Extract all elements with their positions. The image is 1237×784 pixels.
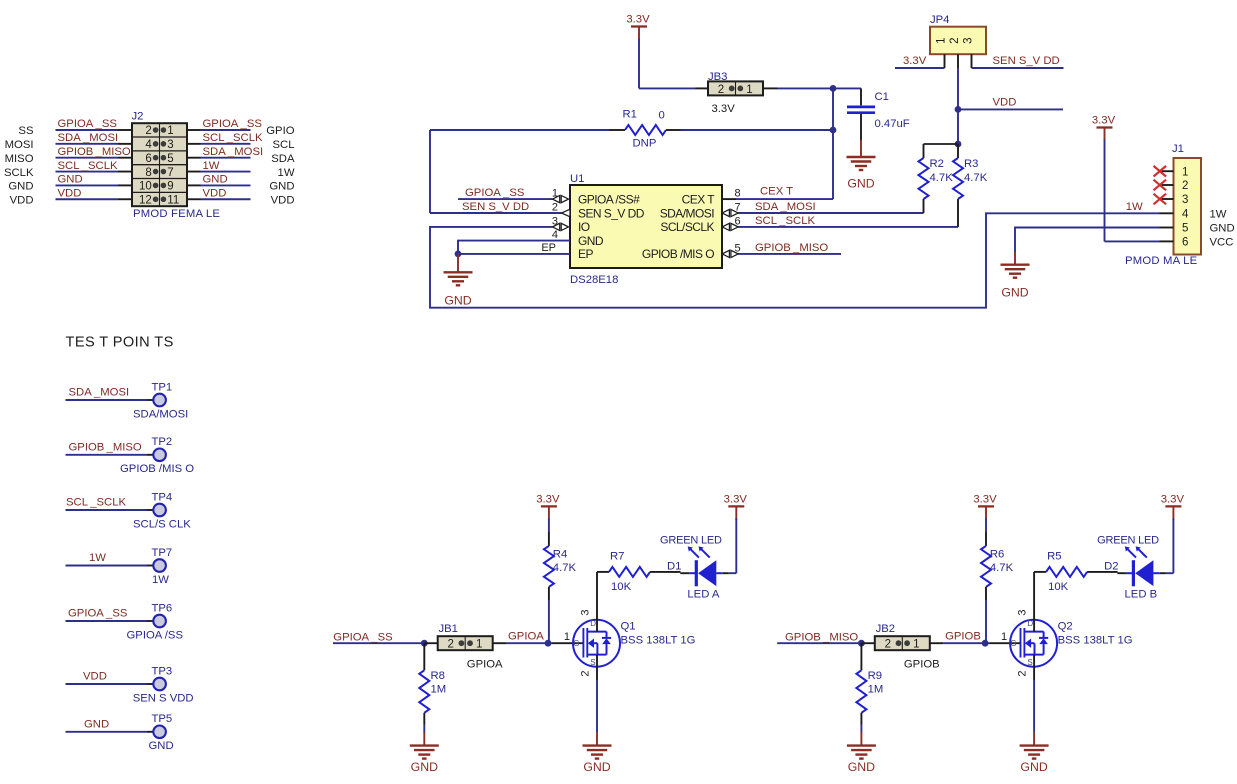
wire JB1 to gate node xyxy=(506,642,548,644)
net label GPIOB_MISO (TP2) xyxy=(69,442,142,454)
wire Q2 drain up to R5 xyxy=(1033,667,1035,732)
net label SCL_SCLK (J2 right) xyxy=(203,132,263,144)
svg-text:1: 1 xyxy=(564,631,570,643)
pin glyph U1 pin 1 xyxy=(553,196,569,203)
svg-text:TP2: TP2 xyxy=(152,436,173,448)
wire GPIOB_MISO: U1 pin 5 xyxy=(738,253,841,255)
net label SDA_MOSI (U1 pin7) xyxy=(755,201,816,213)
svg-text:R8: R8 xyxy=(431,670,445,682)
designator R1 xyxy=(623,109,637,121)
svg-text:SDA/MOSI: SDA/MOSI xyxy=(660,206,714,220)
svg-text:GND: GND xyxy=(848,760,875,774)
port 1W (J1) xyxy=(1210,209,1227,221)
port SS (J2 left) xyxy=(18,125,34,137)
ground (Q1 source) xyxy=(583,732,612,774)
svg-text:GND: GND xyxy=(203,174,228,186)
svg-text:5: 5 xyxy=(1182,223,1188,235)
svg-text:1W: 1W xyxy=(89,552,106,564)
net label SDA_MOSI (J2 left) xyxy=(58,132,119,144)
svg-text:GPIOB /MIS O: GPIOB /MIS O xyxy=(642,247,714,261)
svg-text:10K: 10K xyxy=(1048,581,1069,593)
designator TP6 xyxy=(152,602,173,614)
svg-text:VDD: VDD xyxy=(993,97,1017,109)
designator JB1 xyxy=(439,623,458,635)
svg-text:GND: GND xyxy=(1001,286,1028,300)
jumper JB2 xyxy=(861,636,943,650)
value 4.7K (R2) xyxy=(930,172,954,184)
wire J2 pin 11 right xyxy=(187,198,251,200)
net label SCL_SCLK (TP4) xyxy=(66,497,126,509)
net label 1W (J2 right) xyxy=(203,160,220,172)
wire J2 pin 7 right xyxy=(187,171,251,173)
net label VDD (TP3) xyxy=(83,671,107,683)
svg-text:2: 2 xyxy=(1182,180,1188,192)
svg-text:SDA _MOSI: SDA _MOSI xyxy=(69,387,130,399)
wire 3.3V to JP4 pin 1 xyxy=(895,67,945,69)
svg-text:GREEN LED: GREEN LED xyxy=(660,535,722,547)
svg-text:2: 2 xyxy=(949,37,961,43)
svg-text:3.3V: 3.3V xyxy=(712,103,736,115)
designator J1 xyxy=(1172,143,1184,155)
wire J2 pin 1 right xyxy=(187,129,251,131)
designator D1 xyxy=(667,561,681,573)
wire 1W net: U1 pin 3 loop to J1 pin 4 xyxy=(430,213,1160,307)
resistor R7 10K xyxy=(597,567,681,620)
svg-text:3.3V: 3.3V xyxy=(1092,115,1116,127)
svg-text:5: 5 xyxy=(167,153,173,165)
power port 3.3V (D2) xyxy=(1161,493,1185,520)
wire U1 EP pin xyxy=(458,253,570,255)
wire SENS_VDD from JP4 pin 3 xyxy=(972,67,1064,69)
net label GPIOB_MISO xyxy=(785,631,858,643)
pin number 5 (U1) xyxy=(735,242,741,254)
designator TP1 xyxy=(152,381,173,393)
value 10K (R7) xyxy=(611,581,632,593)
port MOSI (J2 left) xyxy=(5,139,34,151)
test point TP2 xyxy=(66,449,166,462)
svg-text:S: S xyxy=(1027,658,1032,667)
svg-text:Q2: Q2 xyxy=(1058,621,1073,633)
svg-text:D2: D2 xyxy=(1104,561,1118,573)
wire D1 to 3.3V xyxy=(735,519,737,573)
svg-text:DS28E18: DS28E18 xyxy=(570,274,618,286)
svg-text:2: 2 xyxy=(718,84,724,96)
pin glyph U1 pin 5 xyxy=(722,250,738,257)
svg-text:GPIOA: GPIOA xyxy=(467,659,503,671)
svg-text:Q1: Q1 xyxy=(621,621,636,633)
pin names U1 left side xyxy=(578,192,645,261)
svg-text:U1: U1 xyxy=(570,173,584,185)
pin number 3 (Q2 drain) xyxy=(1016,609,1028,615)
svg-text:GPIOB _MISO: GPIOB _MISO xyxy=(69,442,142,454)
svg-text:PMOD MA LE: PMOD MA LE xyxy=(1125,255,1198,267)
port MISO (J2 left) xyxy=(5,153,34,165)
wire D2 to 3.3V xyxy=(1172,519,1174,573)
svg-text:R7: R7 xyxy=(610,551,624,563)
svg-text:SDA/MOSI: SDA/MOSI xyxy=(133,408,188,420)
net label VDD (J2 right) xyxy=(203,187,227,199)
svg-text:GPIOA: GPIOA xyxy=(508,631,544,643)
LED D2 green xyxy=(1117,546,1173,586)
wire J2 pin 8 left xyxy=(56,171,133,173)
svg-text:GPIOB /MIS O: GPIOB /MIS O xyxy=(120,463,194,475)
svg-text:GPIOA /SS: GPIOA /SS xyxy=(127,629,184,641)
svg-text:2: 2 xyxy=(885,639,891,651)
wire J2 pin 3 right xyxy=(187,143,251,145)
svg-text:SDA _MOSI: SDA _MOSI xyxy=(755,201,816,213)
svg-text:VDD: VDD xyxy=(58,187,82,199)
connector J1 PMOD male xyxy=(1160,158,1202,255)
port GND (J1) xyxy=(1210,223,1235,235)
svg-text:GREEN LED: GREEN LED xyxy=(1097,535,1159,547)
test point TP6 xyxy=(66,615,166,628)
svg-text:R4: R4 xyxy=(553,549,567,561)
junction gate node Q1 xyxy=(545,640,552,647)
designator R8 xyxy=(431,670,445,682)
svg-text:6: 6 xyxy=(1182,237,1188,249)
svg-text:JP4: JP4 xyxy=(930,14,949,26)
svg-text:TP1: TP1 xyxy=(152,381,173,393)
svg-text:GPIOB _MISO: GPIOB _MISO xyxy=(755,242,828,254)
label GND (TP5) xyxy=(149,740,174,752)
ground (C1) xyxy=(847,140,876,191)
svg-text:IO: IO xyxy=(578,220,590,234)
power port 3.3V (D1) xyxy=(724,493,748,520)
test point TP3 xyxy=(66,678,166,691)
label GPIOB (below JB2) xyxy=(904,659,940,671)
wire node CEXT vertical xyxy=(832,88,834,199)
port GND (J2 left) xyxy=(8,181,33,193)
svg-text:3.3V: 3.3V xyxy=(626,14,650,26)
designator TP5 xyxy=(152,713,173,725)
pin glyph U1 pin 2 xyxy=(562,209,571,217)
wire U1 pin 4 GND xyxy=(458,241,570,254)
net label GPIOA_SS xyxy=(333,631,393,643)
svg-text:MISO: MISO xyxy=(5,153,34,165)
svg-text:SCL _SCLK: SCL _SCLK xyxy=(66,497,126,509)
svg-text:10K: 10K xyxy=(611,581,632,593)
label LED B xyxy=(1125,589,1158,601)
pin number 2 (Q2 source) xyxy=(1016,670,1028,676)
svg-text:GPIOA _SS: GPIOA _SS xyxy=(68,608,128,620)
svg-text:SCL: SCL xyxy=(273,139,295,151)
svg-text:1W: 1W xyxy=(278,167,295,179)
port GND (J2 right) xyxy=(269,181,294,193)
svg-text:TP5: TP5 xyxy=(152,713,173,725)
svg-text:GND: GND xyxy=(84,719,109,731)
designator JB2 xyxy=(876,623,895,635)
label SDA/MOSI (TP1) xyxy=(133,408,188,420)
svg-text:0: 0 xyxy=(659,110,665,122)
svg-text:1: 1 xyxy=(913,639,919,651)
wire J1 pin 5 to ground xyxy=(1015,228,1160,253)
svg-text:10: 10 xyxy=(139,181,152,193)
svg-text:1: 1 xyxy=(746,84,752,96)
svg-text:GND: GND xyxy=(8,181,33,193)
pin number 2 (Q1 source) xyxy=(579,670,591,676)
svg-text:R9: R9 xyxy=(868,670,882,682)
svg-text:2: 2 xyxy=(447,639,453,651)
ground (Q2 source) xyxy=(1020,732,1049,774)
svg-text:1M: 1M xyxy=(868,684,884,696)
designator TP7 xyxy=(152,547,173,559)
svg-text:GPIOA _SS: GPIOA _SS xyxy=(58,118,118,130)
designator C1 xyxy=(875,91,889,103)
pin number 2 (U1) xyxy=(552,201,558,213)
pin number 4 (U1) xyxy=(552,229,558,241)
wire J2 pin 5 right xyxy=(187,157,251,159)
pin number 1 (Q1 gate) xyxy=(564,631,570,643)
svg-text:LED B: LED B xyxy=(1125,589,1158,601)
svg-text:1: 1 xyxy=(476,639,482,651)
svg-text:1: 1 xyxy=(1182,166,1188,178)
title TEST POINTS xyxy=(66,335,174,351)
wire GPIOA_SS to U1 pin 1 xyxy=(458,198,553,200)
svg-text:GPIOA _SS: GPIOA _SS xyxy=(465,187,525,199)
test point TP1 xyxy=(66,394,166,407)
label PMOD MALE xyxy=(1125,255,1198,267)
svg-text:1W: 1W xyxy=(152,574,169,586)
ground (J1 pin5) xyxy=(1001,252,1030,300)
svg-text:SDA _MOSI: SDA _MOSI xyxy=(58,132,119,144)
net label 3.3V (JP4 pin1) xyxy=(903,55,927,67)
pin number 7 (U1) xyxy=(735,201,741,213)
wire J2 pin 9 right xyxy=(187,184,251,186)
net label 1W (J1 pin4) xyxy=(1126,201,1143,213)
svg-text:EP: EP xyxy=(541,242,556,254)
svg-text:3: 3 xyxy=(1016,609,1028,615)
jumper JB3 xyxy=(696,81,778,95)
svg-text:R3: R3 xyxy=(964,158,978,170)
resistor R1 xyxy=(430,125,833,135)
junction JB1 input xyxy=(421,640,428,647)
ground (U1 EP) xyxy=(444,254,473,307)
svg-text:SEN S_V DD: SEN S_V DD xyxy=(462,201,529,213)
pin glyph U1 pin 6 xyxy=(722,223,738,230)
svg-text:TES T POIN TS: TES T POIN TS xyxy=(66,335,174,351)
pin number 1 (U1) xyxy=(552,188,558,200)
resistor R5 10K xyxy=(1034,567,1118,620)
pin label EP on wire xyxy=(541,242,556,254)
svg-text:R6: R6 xyxy=(990,549,1004,561)
svg-text:1: 1 xyxy=(1001,631,1007,643)
svg-text:3: 3 xyxy=(167,139,173,151)
svg-text:11: 11 xyxy=(167,194,179,206)
svg-text:TP6: TP6 xyxy=(152,602,173,614)
svg-text:SEN S VDD: SEN S VDD xyxy=(133,692,194,704)
test point TP7 xyxy=(66,559,166,572)
connector J2 PMOD female xyxy=(132,123,187,206)
svg-text:SCL _SCLK: SCL _SCLK xyxy=(755,215,815,227)
wire GPIOA_SS input xyxy=(333,642,424,644)
designator R2 xyxy=(930,158,944,170)
net label VDD xyxy=(993,97,1017,109)
svg-text:J2: J2 xyxy=(132,111,144,123)
svg-text:GPIOB _MISO: GPIOB _MISO xyxy=(58,146,131,158)
svg-text:EP: EP xyxy=(578,247,593,261)
resistor R9 1M pull-down xyxy=(856,643,866,732)
wire JP4 pin 2 down to VDD node xyxy=(957,68,959,144)
svg-text:GND: GND xyxy=(269,181,294,193)
svg-text:G: G xyxy=(1010,639,1016,648)
svg-text:12: 12 xyxy=(139,194,152,206)
wire gate node to Q1 gate xyxy=(548,642,584,644)
pin number 3 (Q1 drain) xyxy=(579,609,591,615)
label PMOD FEMALE xyxy=(133,208,220,220)
net label GPIOA_SS (J2 left) xyxy=(58,118,118,130)
svg-text:9: 9 xyxy=(167,181,173,193)
label GPIOA /SS (TP6) xyxy=(127,629,184,641)
op-amp U1 DS28E18 body xyxy=(570,185,722,268)
net label SCL_SCLK (U1 pin6) xyxy=(755,215,815,227)
net label SCL_SCLK (J2 left) xyxy=(58,160,118,172)
test point TP5 xyxy=(66,726,166,739)
svg-text:3: 3 xyxy=(963,37,975,43)
svg-text:R1: R1 xyxy=(623,109,637,121)
svg-text:1: 1 xyxy=(167,125,173,137)
svg-text:8: 8 xyxy=(145,167,151,179)
svg-text:JB1: JB1 xyxy=(439,623,458,635)
net label GND (J2 left) xyxy=(58,174,83,186)
power port 3.3V (R4) xyxy=(536,493,560,532)
svg-text:BSS 138LT 1G: BSS 138LT 1G xyxy=(1058,635,1133,647)
part number BSS 138LT 1G (Q2) xyxy=(1058,635,1133,647)
svg-text:4.7K: 4.7K xyxy=(930,172,954,184)
power port 3.3V (top, feeds JB3) xyxy=(626,14,650,89)
designator R9 xyxy=(868,670,882,682)
net label GPIOB_MISO (J2 left) xyxy=(58,146,131,158)
wire VDD xyxy=(958,108,1063,110)
svg-text:6: 6 xyxy=(145,153,151,165)
svg-text:SDA: SDA xyxy=(271,153,295,165)
svg-text:0.47uF: 0.47uF xyxy=(875,118,910,130)
svg-text:1W: 1W xyxy=(1126,201,1143,213)
svg-text:SS: SS xyxy=(18,125,34,137)
svg-text:VDD: VDD xyxy=(203,187,227,199)
resistor R6 4.7K xyxy=(981,532,991,643)
svg-text:2: 2 xyxy=(1016,670,1028,676)
junction gate node Q2 xyxy=(982,640,989,647)
svg-text:GPIOA /SS#: GPIOA /SS# xyxy=(578,192,640,206)
resistor R8 1M pull-down xyxy=(419,643,429,732)
port SCLK (J2 left) xyxy=(4,167,34,179)
svg-text:GND: GND xyxy=(149,740,174,752)
svg-text:MOSI: MOSI xyxy=(5,139,34,151)
wire Q1 drain up to R7 xyxy=(596,667,598,732)
junction R2/R3 top xyxy=(955,141,962,148)
designator TP4 xyxy=(152,491,173,503)
resistor R2 4.7K xyxy=(919,144,959,213)
value 4.7K (R4) xyxy=(553,562,577,574)
svg-text:2: 2 xyxy=(145,125,151,137)
port VCC (J1) xyxy=(1210,237,1234,249)
value 10K (R5) xyxy=(1048,581,1069,593)
transistor Q1 BSS 138LT 1G xyxy=(573,619,620,667)
svg-text:3: 3 xyxy=(1182,194,1188,206)
junction at JB3 output xyxy=(830,85,837,92)
svg-text:GND: GND xyxy=(444,293,471,307)
svg-text:VDD: VDD xyxy=(10,194,34,206)
port SCL (J2 right) xyxy=(273,139,295,151)
capacitor C1 xyxy=(847,88,875,140)
svg-text:3.3V: 3.3V xyxy=(724,493,748,505)
label LED A xyxy=(687,589,719,601)
svg-text:D: D xyxy=(1027,619,1033,628)
net label GND (J2 right) xyxy=(203,174,228,186)
part number DS28E18 xyxy=(570,274,618,286)
net label GPIOB (gate node) xyxy=(945,631,981,643)
designator R6 xyxy=(990,549,1004,561)
svg-text:D1: D1 xyxy=(667,561,681,573)
svg-text:TP3: TP3 xyxy=(152,665,173,677)
svg-text:1W: 1W xyxy=(1210,209,1227,221)
svg-text:R2: R2 xyxy=(930,158,944,170)
svg-text:3.3V: 3.3V xyxy=(536,493,560,505)
svg-text:J1: J1 xyxy=(1172,143,1184,155)
designator R7 xyxy=(610,551,624,563)
label GPIOB /MIS O (TP2) xyxy=(120,463,194,475)
label SEN S VDD (TP3) xyxy=(133,692,194,704)
svg-text:JB2: JB2 xyxy=(876,623,895,635)
test point TP4 xyxy=(66,504,166,517)
connector JP4 xyxy=(930,27,986,68)
net label SENS_VDD (U1 pin2) xyxy=(462,201,529,213)
svg-text:4: 4 xyxy=(552,229,558,241)
designator D2 xyxy=(1104,561,1118,573)
pin number 1 (Q2 gate) xyxy=(1001,631,1007,643)
svg-text:TP7: TP7 xyxy=(152,547,173,559)
ground (R9) xyxy=(847,732,876,774)
svg-text:S: S xyxy=(590,658,595,667)
value 1M (R8) xyxy=(431,684,447,696)
svg-text:GND: GND xyxy=(847,177,874,191)
svg-text:SEN S_V DD: SEN S_V DD xyxy=(993,55,1060,67)
svg-text:4.7K: 4.7K xyxy=(553,562,577,574)
jumper JB1 xyxy=(424,636,506,650)
wire J2 pin 2 left xyxy=(56,129,133,131)
pin glyph U1 pin 7 xyxy=(722,209,738,216)
pin number 8 (U1) xyxy=(735,188,741,200)
label GREEN LED (D2) xyxy=(1097,535,1159,547)
svg-text:4: 4 xyxy=(145,139,152,151)
svg-text:SEN S_V DD: SEN S_V DD xyxy=(578,206,645,220)
svg-text:1W: 1W xyxy=(203,160,220,172)
svg-text:R5: R5 xyxy=(1047,551,1061,563)
net label GPIOA (gate node) xyxy=(508,631,544,643)
net label SDA_MOSI (TP1) xyxy=(69,387,130,399)
net label GPIOB_MISO (U1 pin5) xyxy=(755,242,828,254)
net label VDD (J2 left) xyxy=(58,187,82,199)
wire SENS_VDD to U1 pin 2 xyxy=(430,130,562,213)
svg-text:2: 2 xyxy=(579,670,591,676)
label GREEN LED (D1) xyxy=(660,535,722,547)
port VDD (J2 left) xyxy=(10,194,34,206)
label GPIOA (below JB1) xyxy=(467,659,503,671)
part number BSS 138LT 1G (Q1) xyxy=(621,635,696,647)
svg-text:4.7K: 4.7K xyxy=(990,562,1014,574)
svg-text:BSS 138LT 1G: BSS 138LT 1G xyxy=(621,635,696,647)
wire CEXT: U1 pin 8 xyxy=(722,198,833,200)
wire JB3 to node CEXT xyxy=(778,87,862,89)
no-connect X J1 pin 1 xyxy=(1154,166,1167,177)
svg-text:GND: GND xyxy=(583,760,610,774)
wire GPIOB_MISO input xyxy=(777,642,861,644)
value 4.7K (R6) xyxy=(990,562,1014,574)
svg-text:7: 7 xyxy=(167,167,173,179)
pin glyph U1 pin 3 xyxy=(553,223,569,230)
pin number 6 (U1) xyxy=(735,215,741,227)
svg-text:3.3V: 3.3V xyxy=(1161,493,1185,505)
